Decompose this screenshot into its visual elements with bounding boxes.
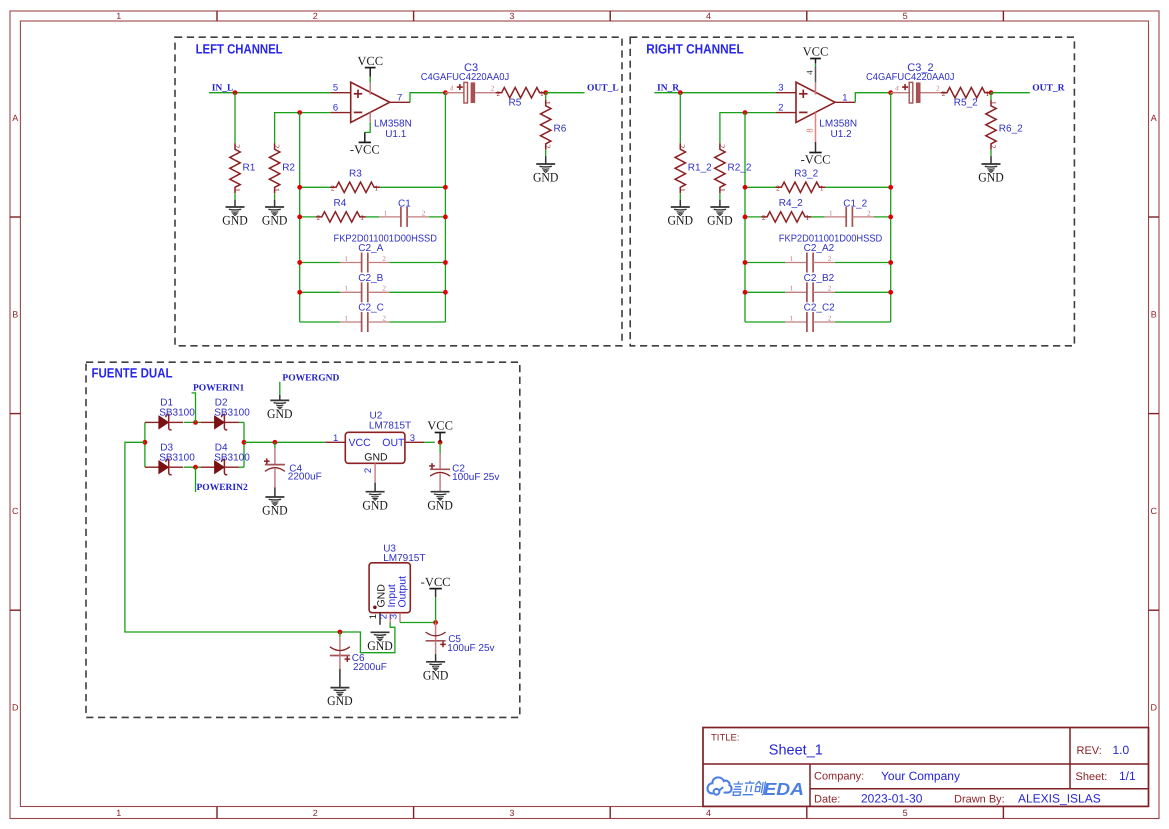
svg-text:1: 1 xyxy=(116,11,121,21)
capacitor C2_A xyxy=(340,243,389,273)
diode D3 () xyxy=(145,459,183,475)
ground below U2 pin 2 xyxy=(362,492,388,513)
voltage regulator U2 (LM7815T) xyxy=(325,432,424,482)
svg-text:LM358N: LM358N xyxy=(374,119,412,130)
wire POWERIN1 stub xyxy=(192,393,196,423)
svg-text:6: 6 xyxy=(333,102,338,113)
ground POWERGND xyxy=(267,400,293,421)
svg-text:U1.2: U1.2 xyxy=(831,129,853,140)
svg-text:1: 1 xyxy=(829,209,833,217)
wire C2 row left xyxy=(300,291,340,293)
ground below R2_2 xyxy=(707,207,733,228)
svg-text:POWERGND: POWERGND xyxy=(282,373,339,383)
svg-text:2: 2 xyxy=(717,144,726,148)
svg-text:2: 2 xyxy=(828,255,832,263)
svg-text:GND: GND xyxy=(222,213,248,228)
svg-text:3: 3 xyxy=(410,433,415,444)
power flag VCC rail xyxy=(427,419,453,433)
svg-text:SB3100: SB3100 xyxy=(159,407,195,418)
voltage regulator U3 (LM7915T) xyxy=(368,563,410,625)
svg-text:R3_2: R3_2 xyxy=(794,169,818,180)
svg-text:SB3100: SB3100 xyxy=(159,452,195,463)
capacitor C2_B2 xyxy=(785,273,834,303)
svg-text:R2_2: R2_2 xyxy=(728,163,752,174)
svg-text:C2_B2: C2_B2 xyxy=(804,273,835,284)
svg-text:2: 2 xyxy=(776,184,780,193)
svg-text:Sheet:: Sheet: xyxy=(1076,771,1108,783)
svg-text:1: 1 xyxy=(344,285,348,293)
power flag VCC above U1.2 xyxy=(803,45,829,59)
junction bus right xyxy=(443,290,448,295)
svg-text:1.0: 1.0 xyxy=(1113,743,1130,757)
svg-text:GND: GND xyxy=(327,693,353,708)
junction R5/R6/out xyxy=(543,90,548,95)
section box RIGHT CHANNEL xyxy=(630,37,1074,346)
svg-text:3: 3 xyxy=(389,614,400,619)
svg-text:1: 1 xyxy=(375,184,379,193)
svg-text:4: 4 xyxy=(895,85,899,93)
svg-text:1: 1 xyxy=(232,188,241,192)
wire R1 to gnd xyxy=(234,193,236,199)
svg-text:GND: GND xyxy=(364,451,388,463)
ground below R2 xyxy=(262,207,288,228)
junction bus right xyxy=(443,260,448,265)
svg-text:1: 1 xyxy=(384,209,388,217)
svg-text:R5: R5 xyxy=(509,97,522,108)
svg-text:VCC: VCC xyxy=(349,437,372,449)
wire output net xyxy=(991,92,1030,94)
svg-text:1: 1 xyxy=(790,314,794,322)
junction C4 tap xyxy=(273,440,278,445)
svg-text:1: 1 xyxy=(116,808,121,818)
svg-text:IN_L: IN_L xyxy=(212,83,234,93)
resistor R1 xyxy=(230,143,256,193)
junction -VCC/C5 tap xyxy=(433,620,438,625)
svg-text:GND: GND xyxy=(668,213,694,228)
opamp V- pin xyxy=(815,112,817,141)
wire POWERIN2 stub xyxy=(195,467,197,492)
svg-text:R4: R4 xyxy=(334,198,347,209)
svg-text:100uF 25v: 100uF 25v xyxy=(447,643,494,654)
svg-text:RIGHT CHANNEL: RIGHT CHANNEL xyxy=(646,41,744,56)
svg-text:LM7815T: LM7815T xyxy=(369,421,411,432)
svg-text:Output: Output xyxy=(396,576,408,608)
svg-text:2: 2 xyxy=(491,85,495,93)
svg-text:2: 2 xyxy=(828,314,832,322)
svg-text:C: C xyxy=(1151,506,1158,516)
svg-text:1/1: 1/1 xyxy=(1119,769,1136,783)
junction POWERIN2 tap xyxy=(193,465,198,470)
EasyEDA logo cloud xyxy=(708,777,732,794)
svg-text:Your Company: Your Company xyxy=(881,769,960,783)
ground below C2 xyxy=(427,492,453,513)
svg-text:1: 1 xyxy=(820,184,824,193)
svg-text:2: 2 xyxy=(382,314,386,322)
svg-text:8: 8 xyxy=(804,128,814,133)
junction bus/C1 right xyxy=(888,215,893,220)
capacitor C1 xyxy=(379,199,428,227)
svg-text:1: 1 xyxy=(842,93,847,104)
svg-text:TITLE:: TITLE: xyxy=(711,733,740,744)
ground below R6 xyxy=(533,164,559,185)
resistor R5_2 xyxy=(941,88,991,99)
power flag -VCC below U1.1 xyxy=(350,142,380,156)
svg-text:C4GAFUC4220AA0J: C4GAFUC4220AA0J xyxy=(866,72,955,83)
op-amp U1.1 xyxy=(331,82,412,140)
wire feedback net xyxy=(720,113,776,144)
svg-text:OUT_L: OUT_L xyxy=(587,83,619,93)
wire C2 row right xyxy=(835,262,891,264)
svg-text:C2_A: C2_A xyxy=(358,243,383,254)
svg-text:7: 7 xyxy=(397,93,402,104)
wire left bus xyxy=(744,113,746,322)
junction bus/R4 left xyxy=(297,215,302,220)
wire R4-C1 link xyxy=(366,216,380,218)
resistor R6_2 xyxy=(986,100,1023,150)
svg-text:2: 2 xyxy=(867,209,871,217)
svg-text:EDA: EDA xyxy=(764,779,805,799)
svg-text:2: 2 xyxy=(778,102,783,113)
ground below R6_2 xyxy=(978,164,1004,185)
svg-text:2023-01-30: 2023-01-30 xyxy=(861,792,923,806)
svg-text:C2_C: C2_C xyxy=(358,303,384,314)
VCC stem xyxy=(439,433,441,443)
ground below C4 xyxy=(262,497,288,518)
svg-text:LM7915T: LM7915T xyxy=(383,553,425,564)
svg-text:2: 2 xyxy=(936,85,940,93)
svg-text:OUT: OUT xyxy=(382,437,405,449)
junction C6 tap xyxy=(338,630,343,635)
svg-text:1: 1 xyxy=(360,213,364,222)
svg-text:2: 2 xyxy=(828,285,832,293)
svg-text:3: 3 xyxy=(509,11,514,21)
junction bus right xyxy=(888,260,893,265)
svg-text:A: A xyxy=(12,113,18,123)
svg-text:POWERIN2: POWERIN2 xyxy=(197,483,248,493)
svg-text:REV:: REV: xyxy=(1077,745,1102,757)
svg-text:OUT_R: OUT_R xyxy=(1032,83,1064,93)
wire negative rail long bus xyxy=(125,442,395,652)
svg-text:2: 2 xyxy=(678,144,687,148)
resistor R6 xyxy=(541,100,567,150)
wire to R1 xyxy=(234,93,236,144)
polarized capacitor C2 xyxy=(429,453,450,492)
svg-text:R6_2: R6_2 xyxy=(999,124,1023,135)
svg-text:VCC: VCC xyxy=(357,54,383,68)
junction feedback/bus xyxy=(297,110,302,115)
wire bridge right vertical xyxy=(243,422,245,467)
power flag VCC above U1.1 xyxy=(357,54,383,68)
svg-text:GND: GND xyxy=(362,497,388,512)
svg-text:4: 4 xyxy=(450,85,454,93)
junction output/C3 xyxy=(888,90,893,95)
wire V- jog xyxy=(365,122,370,132)
svg-text:2: 2 xyxy=(422,209,426,217)
capacitor C2_B xyxy=(340,273,389,303)
resistor R5 xyxy=(496,88,546,99)
svg-text:IN_R: IN_R xyxy=(657,83,679,93)
wire U2 out net xyxy=(424,441,435,443)
wire feedback net xyxy=(275,113,331,144)
svg-text:B: B xyxy=(1151,310,1157,320)
title block xyxy=(703,728,1149,807)
polarized capacitor C3 xyxy=(445,82,495,103)
svg-text:R2: R2 xyxy=(282,163,295,174)
svg-text:2: 2 xyxy=(762,213,766,222)
wire output jog xyxy=(410,93,445,103)
wire to R6 xyxy=(990,93,992,100)
wire D2 out to corner xyxy=(239,421,244,423)
svg-text:ALEXIS_ISLAS: ALEXIS_ISLAS xyxy=(1018,792,1101,806)
junction bus/R3 left xyxy=(297,185,302,190)
resistor R2_2 xyxy=(715,143,752,193)
diode D1 () xyxy=(145,414,183,430)
frame column ticks bottom xyxy=(216,807,218,819)
wire D3-D4 link xyxy=(184,466,201,468)
svg-text:-VCC: -VCC xyxy=(421,575,451,589)
opamp V+ pin xyxy=(815,82,817,94)
capacitor C1_2 xyxy=(825,199,874,227)
junction bus left xyxy=(743,260,748,265)
junction R5/R6/out xyxy=(989,90,994,95)
svg-text:GND: GND xyxy=(262,213,288,228)
wire to R1 xyxy=(679,93,681,144)
svg-text:R5_2: R5_2 xyxy=(954,97,978,108)
wire R4 row left xyxy=(300,216,316,218)
wire R1 to gnd xyxy=(679,193,681,199)
wire -VCC green stem xyxy=(435,597,437,623)
wire R3 row left xyxy=(300,186,330,188)
wire input net xyxy=(209,92,331,94)
frame row ticks right xyxy=(1149,216,1160,218)
svg-text:C1_2: C1_2 xyxy=(843,199,867,210)
junction bridge right tap xyxy=(242,440,247,445)
svg-text:2: 2 xyxy=(496,89,500,98)
wire C2 stub xyxy=(439,442,441,453)
wire R3 row left xyxy=(745,186,775,188)
junction bus/C1 right xyxy=(443,215,448,220)
wire D1-D2 link xyxy=(184,421,201,423)
junction bus/R3 right xyxy=(443,185,448,190)
wire C2 row left xyxy=(745,262,785,264)
opamp V+ pin xyxy=(369,83,371,95)
wire U3 output net xyxy=(400,622,436,624)
svg-text:5: 5 xyxy=(903,11,908,21)
svg-text:2: 2 xyxy=(363,468,374,473)
frame row ticks left xyxy=(10,216,20,218)
svg-text:C: C xyxy=(12,506,19,516)
svg-text:4: 4 xyxy=(706,808,711,818)
svg-text:1: 1 xyxy=(344,314,348,322)
ground below U3 pin 1 xyxy=(367,632,393,653)
section box FUENTE DUAL xyxy=(86,362,520,717)
wire right bus xyxy=(444,93,446,322)
capacitor C2_C xyxy=(340,303,389,333)
resistor R4_2 xyxy=(761,198,811,222)
svg-text:FUENTE DUAL: FUENTE DUAL xyxy=(92,365,173,380)
svg-text:Sheet_1: Sheet_1 xyxy=(769,743,823,759)
svg-text:VCC: VCC xyxy=(427,419,453,433)
wire C2 row right xyxy=(389,291,445,293)
svg-text:1: 1 xyxy=(790,285,794,293)
polarized capacitor C6 xyxy=(330,637,350,669)
wire POWERGND stub xyxy=(279,382,281,395)
svg-text:2: 2 xyxy=(272,144,281,148)
power flag -VCC below U1.2 xyxy=(801,153,831,167)
junction bus/R3 right xyxy=(888,185,893,190)
wire C2 row left xyxy=(300,262,340,264)
resistor R3_2 xyxy=(775,169,825,193)
section box LEFT CHANNEL xyxy=(175,37,622,346)
wire R4 row left xyxy=(745,216,761,218)
junction bus left xyxy=(743,290,748,295)
junction feedback/bus xyxy=(743,110,748,115)
power flag -VCC rail xyxy=(421,575,451,589)
wire R6 to gnd xyxy=(990,150,992,156)
diode D4 () xyxy=(201,459,239,475)
-VCC stem xyxy=(435,589,437,597)
wire C6 stub xyxy=(339,632,341,637)
svg-text:SB3100: SB3100 xyxy=(214,452,250,463)
svg-text:1: 1 xyxy=(333,433,338,444)
svg-text:R6: R6 xyxy=(554,124,567,135)
svg-text:2: 2 xyxy=(543,144,552,148)
junction bus left xyxy=(297,260,302,265)
svg-text:2: 2 xyxy=(232,144,241,148)
svg-text:2: 2 xyxy=(313,11,318,21)
wire D4 out to corner xyxy=(239,466,244,468)
junction bus right xyxy=(888,290,893,295)
capacitor C2_A2 xyxy=(785,243,834,273)
svg-text:1: 1 xyxy=(272,188,281,192)
svg-text:R1_2: R1_2 xyxy=(688,163,712,174)
svg-text:1: 1 xyxy=(344,255,348,263)
wire C2 row left xyxy=(745,291,785,293)
svg-text:LM358N: LM358N xyxy=(819,119,857,130)
wire to R6 xyxy=(545,93,547,100)
svg-text:GND: GND xyxy=(533,170,559,185)
svg-text:GND: GND xyxy=(978,170,1004,185)
svg-text:2200uF: 2200uF xyxy=(288,472,322,483)
svg-text:2: 2 xyxy=(331,184,335,193)
svg-text:4: 4 xyxy=(706,11,711,21)
junction VCC/C2 tap xyxy=(438,440,443,445)
svg-text:R4_2: R4_2 xyxy=(779,198,803,209)
svg-text:GND: GND xyxy=(262,503,288,518)
svg-text:POWERIN1: POWERIN1 xyxy=(193,384,244,394)
wire C1 row right xyxy=(429,216,446,218)
svg-text:2: 2 xyxy=(382,255,386,263)
svg-text:C1: C1 xyxy=(398,199,411,210)
svg-text:4: 4 xyxy=(805,70,815,75)
svg-text:B: B xyxy=(12,310,18,320)
svg-text:C2_B: C2_B xyxy=(358,273,383,284)
svg-text:2: 2 xyxy=(382,285,386,293)
svg-text:1: 1 xyxy=(790,255,794,263)
svg-text:2: 2 xyxy=(988,144,997,148)
wire positive rail xyxy=(244,441,325,443)
svg-text:2: 2 xyxy=(313,808,318,818)
junction input/R-div xyxy=(678,90,683,95)
wire R6 to gnd xyxy=(545,150,547,156)
svg-text:3: 3 xyxy=(509,808,514,818)
ground below R1_2 xyxy=(668,207,694,228)
svg-text:D: D xyxy=(12,703,19,713)
svg-text:3: 3 xyxy=(778,83,783,94)
wire C2 row right xyxy=(835,291,891,293)
wire C2 row left xyxy=(745,321,785,323)
wire R3 row right xyxy=(380,186,445,188)
svg-text:R1: R1 xyxy=(243,163,256,174)
svg-text:SB3100: SB3100 xyxy=(214,407,250,418)
svg-text:5: 5 xyxy=(903,808,908,818)
wire bridge left vertical xyxy=(144,422,146,467)
svg-text:-VCC: -VCC xyxy=(801,153,831,167)
svg-text:2: 2 xyxy=(317,213,321,222)
resistor R1_2 xyxy=(675,143,712,193)
svg-text:1: 1 xyxy=(806,213,810,222)
wire C2 row right xyxy=(835,321,891,323)
frame column ticks top xyxy=(216,11,218,21)
svg-text:GND: GND xyxy=(267,406,293,421)
svg-text:2200uF: 2200uF xyxy=(353,662,387,673)
capacitor C2_C2 xyxy=(785,303,835,333)
svg-text:-VCC: -VCC xyxy=(350,143,380,157)
resistor R4 xyxy=(316,198,366,222)
svg-text:LEFT CHANNEL: LEFT CHANNEL xyxy=(196,41,283,56)
diode D2 () xyxy=(201,414,239,430)
opamp V- pin xyxy=(369,113,371,123)
svg-text:GND: GND xyxy=(427,497,453,512)
ground below R1 xyxy=(222,207,248,228)
svg-text:C2_C2: C2_C2 xyxy=(804,303,836,314)
svg-text:C2_A2: C2_A2 xyxy=(804,243,835,254)
svg-text:R3: R3 xyxy=(349,169,362,180)
svg-text:1: 1 xyxy=(678,188,687,192)
polarized capacitor C3_2 xyxy=(891,82,941,103)
wire R3 row right xyxy=(825,186,890,188)
svg-text:Drawn By:: Drawn By: xyxy=(954,794,1005,806)
junction bus/R3 left xyxy=(743,185,748,190)
resistor R3 xyxy=(330,169,380,193)
junction bus/R4 left xyxy=(743,215,748,220)
wire right bus xyxy=(890,93,892,322)
junction bus left xyxy=(297,290,302,295)
wire R2 to gnd xyxy=(274,193,276,199)
wire C4 stub xyxy=(274,442,276,448)
junction output/C3 xyxy=(443,90,448,95)
svg-text:VCC: VCC xyxy=(803,45,829,59)
svg-text:5: 5 xyxy=(333,83,338,94)
svg-text:GND: GND xyxy=(707,213,733,228)
svg-text:U1.1: U1.1 xyxy=(385,129,407,140)
wire C2 row left xyxy=(300,321,340,323)
EasyEDA logo CJK text xyxy=(732,781,766,795)
svg-text:FKP2D011001D00HSSD: FKP2D011001D00HSSD xyxy=(334,233,438,244)
wire output jog xyxy=(855,93,890,103)
resistor R2 xyxy=(269,143,295,193)
svg-text:1: 1 xyxy=(543,101,552,105)
svg-text:1: 1 xyxy=(717,188,726,192)
junction bridge left tap xyxy=(143,440,148,445)
wire left bus xyxy=(299,113,301,322)
ground below C5 xyxy=(423,662,449,683)
svg-text:GND: GND xyxy=(423,667,449,682)
svg-text:Date:: Date: xyxy=(814,794,840,806)
wire C1 row right xyxy=(874,216,891,218)
wire R4-C1 link xyxy=(811,216,825,218)
junction POWERIN1 tap xyxy=(193,420,198,425)
